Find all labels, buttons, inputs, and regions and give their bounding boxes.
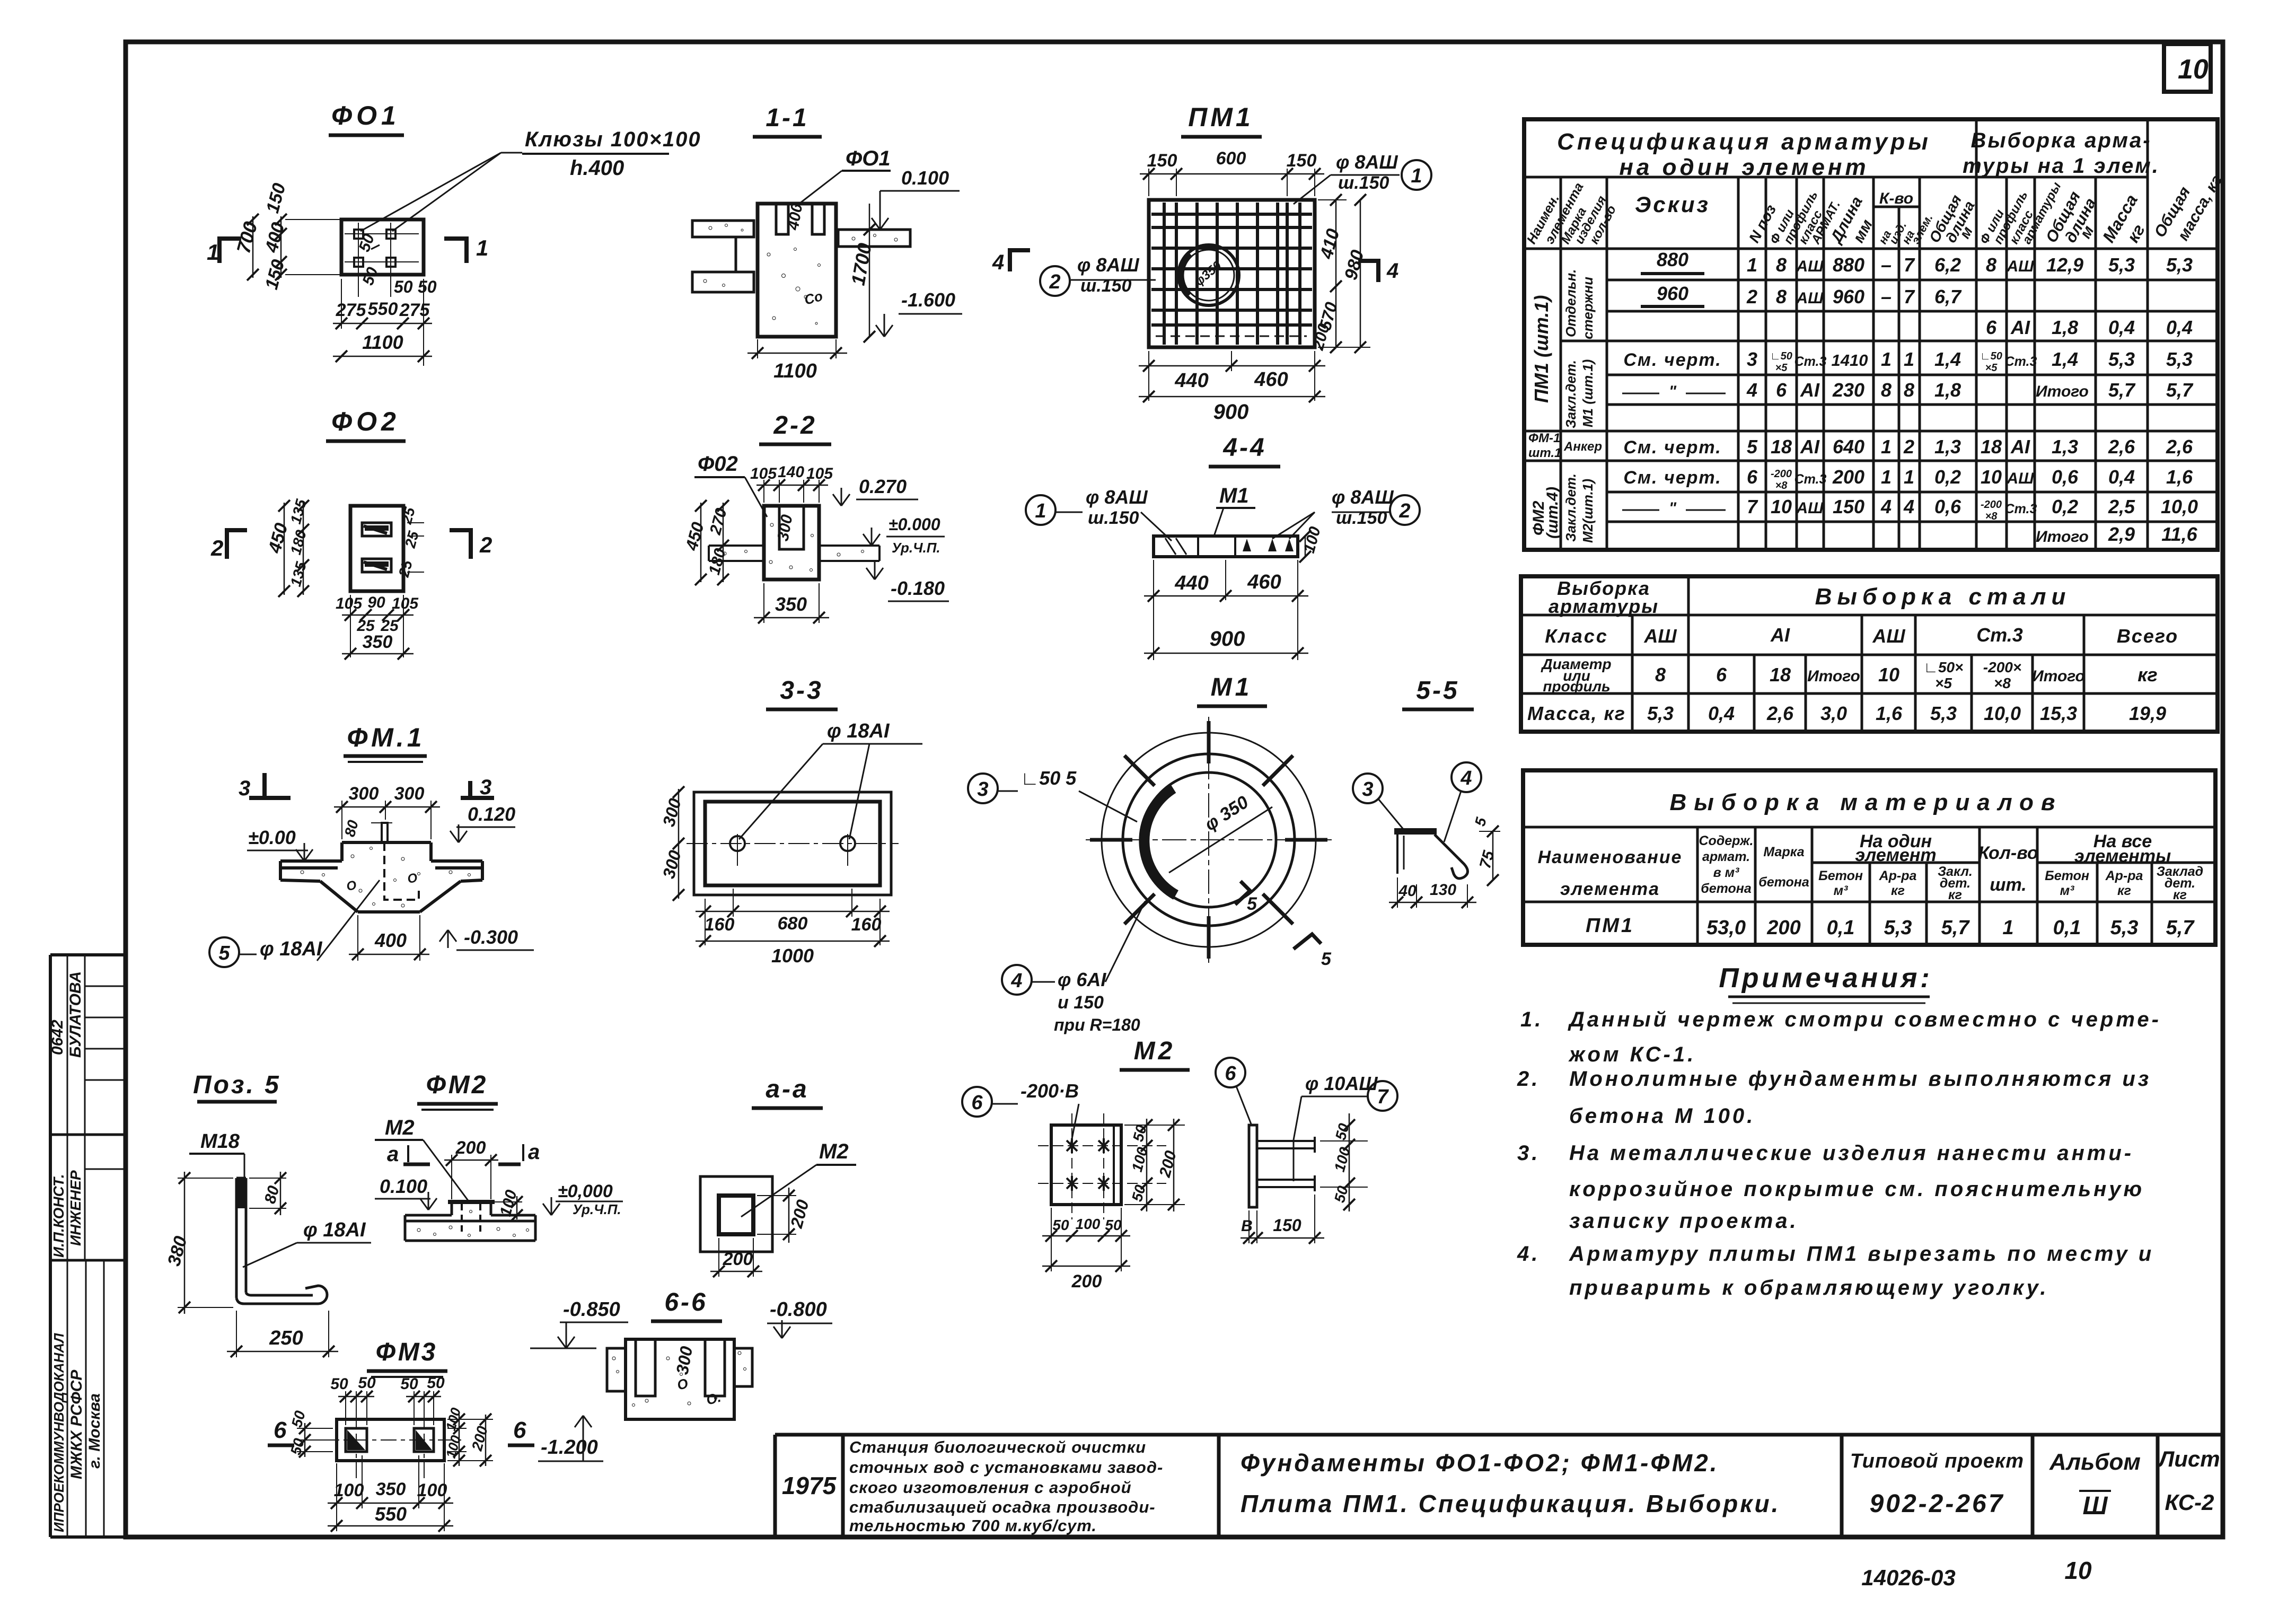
section а-а square [700,1176,772,1252]
svg-text:×8: ×8 [1985,511,1998,522]
svg-text:АI: АI [1800,436,1820,458]
svg-text:2.: 2. [1517,1067,1540,1091]
svg-text:50: 50 [400,1375,418,1393]
svg-text:ФМ.1: ФМ.1 [347,723,425,752]
svg-text:М2(шт.1): М2(шт.1) [1580,479,1596,543]
svg-text:5,3: 5,3 [1884,917,1912,939]
svg-text:Поз. 5: Поз. 5 [193,1071,281,1099]
svg-text:кг: кг [2173,888,2187,902]
svg-text:50: 50 [330,1375,348,1393]
svg-text:Спецификация арматуры: Спецификация арматуры [1557,129,1931,155]
svg-text:См. черт.: См. черт. [1623,468,1721,488]
svg-text:105: 105 [392,595,419,612]
svg-text:-0.850: -0.850 [563,1298,620,1321]
svg-text:900: 900 [1210,627,1245,651]
svg-text:0642: 0642 [49,1020,66,1055]
svg-text:АI: АI [2010,436,2030,458]
table: Выборка материалов (grid) [1523,770,2215,945]
svg-text:0,2: 0,2 [2052,496,2078,517]
svg-text:м³: м³ [1834,883,1848,898]
М2 anchors (4 crosses) [1067,1138,1109,1191]
svg-text:Выборка материалов: Выборка материалов [1670,789,2063,815]
svg-text:275: 275 [399,300,430,320]
svg-text:880: 880 [1657,249,1688,270]
dim 1100 bottom of 1-1 [757,339,758,358]
svg-text:3: 3 [480,776,491,799]
svg-text:350: 350 [376,1479,406,1499]
ФМ3 left dims 50 50 [297,1428,333,1429]
2-2 top dims 105 140 105 [763,480,764,503]
ФМ1 concrete dots [301,847,471,908]
ФО2 bottom dims 105 90 105 / 25 25 / 350 [350,595,351,657]
svg-text:записку проекта.: записку проекта. [1569,1209,1799,1233]
2-2 left dims 450 270 180 [700,503,702,582]
svg-text:19,9: 19,9 [2129,702,2166,724]
svg-text:7: 7 [1904,254,1915,276]
svg-text:10: 10 [1771,496,1792,517]
svg-text:АI: АI [1800,379,1820,401]
svg-text:ш.150: ш.150 [1336,508,1387,528]
svg-text:960: 960 [1833,286,1864,308]
svg-text:М2: М2 [1134,1037,1176,1065]
section 1-1 foundation block [758,204,836,337]
callout 6 side М2 [1216,1058,1245,1087]
svg-text:5: 5 [1747,436,1758,458]
svg-text:1: 1 [476,235,488,260]
svg-text:100: 100 [1076,1216,1101,1232]
section 2-2 drawing [764,506,819,579]
а-а dim 200 right [757,1195,796,1196]
svg-text:150: 150 [1147,151,1177,171]
svg-text:Всего: Всего [2117,625,2178,647]
svg-text:": " [1669,499,1677,517]
svg-text:сточных вод с установками: сточных вод с установками завод- [849,1458,1163,1477]
svg-text:–: – [1881,254,1892,276]
callout 3 on 5-5 [1353,774,1383,803]
svg-text:Ст.3: Ст.3 [1794,354,1827,369]
svg-text:1,8: 1,8 [2052,317,2078,338]
svg-text:АШ: АШ [1796,499,1824,517]
svg-text:φ 8АШ: φ 8АШ [1336,151,1398,173]
svg-text:5,3: 5,3 [1930,702,1957,724]
svg-text:6,2: 6,2 [1934,254,1961,276]
svg-text:φ 18АI: φ 18АI [260,938,323,960]
svg-text:ПМ1: ПМ1 [1188,102,1253,132]
svg-text:50: 50 [418,277,437,296]
svg-text:φ 8АШ: φ 8АШ [1332,486,1394,508]
svg-text:1,3: 1,3 [2052,436,2078,458]
svg-text:-1.200: -1.200 [541,1436,598,1459]
svg-text:1: 1 [1881,466,1892,488]
svg-text:См. черт.: См. черт. [1623,350,1721,370]
svg-text:4: 4 [1460,767,1472,789]
svg-text:6-6: 6-6 [664,1288,707,1316]
svg-text:∟50 5: ∟50 5 [1021,767,1077,789]
svg-text:200: 200 [723,1249,753,1269]
svg-text:1000: 1000 [771,945,814,967]
section mark 2 left [227,530,247,559]
svg-text:–: – [1881,286,1892,308]
svg-text:250: 250 [269,1327,303,1349]
svg-text:-0.800: -0.800 [770,1298,827,1321]
anchor Поз.5 (М18, φ18АI) [236,1178,327,1304]
svg-text:профиль: профиль [1543,678,1610,695]
svg-text:6: 6 [1747,466,1758,488]
svg-text:7: 7 [1904,286,1915,308]
svg-text:φ 18АI: φ 18АI [303,1219,366,1241]
svg-text:4: 4 [1010,970,1022,992]
svg-text:ИНЖЕНЕР: ИНЖЕНЕР [67,1170,84,1246]
svg-text:ш.150: ш.150 [1080,276,1131,296]
svg-text:130: 130 [1430,881,1456,899]
section mark 1 left [219,239,241,263]
svg-text:-0.180: -0.180 [891,577,945,599]
svg-text:2-2: 2-2 [773,411,816,440]
svg-text:ПМ1 (шт.1): ПМ1 (шт.1) [1530,295,1552,403]
svg-text:10: 10 [1981,466,2002,488]
svg-text:10,0: 10,0 [2161,496,2198,517]
svg-text:Итого: Итого [2032,668,2085,685]
М2 dims bottom 50 100 50 200 [1051,1208,1052,1271]
svg-text:350: 350 [363,632,393,652]
svg-text:ИПРОЕКОММУНВОДОКАНАЛ: ИПРОЕКОММУНВОДОКАНАЛ [51,1332,67,1532]
section 4-4 plate [1154,536,1298,557]
section mark 3 right [468,781,472,798]
svg-text:440: 440 [1174,370,1208,392]
svg-text:10: 10 [2064,1557,2092,1584]
М2 side dims bottom B 150 [1248,1210,1250,1243]
svg-text:1: 1 [1411,165,1422,187]
svg-text:1,4: 1,4 [1934,348,1961,370]
svg-text:(шт.4): (шт.4) [1544,487,1561,539]
svg-text:7: 7 [1377,1086,1389,1108]
section mark 3 left [262,773,267,798]
svg-text:1: 1 [1881,348,1892,370]
svg-text:2: 2 [1903,436,1914,458]
svg-text:Ар-ра: Ар-ра [2105,868,2143,883]
svg-text:Выборка стали: Выборка стали [1815,584,2071,610]
svg-text:6: 6 [274,1417,287,1443]
section 6-6 drawing [626,1339,734,1419]
svg-text:3: 3 [1747,348,1757,370]
svg-text:Ур.Ч.П.: Ур.Ч.П. [573,1201,621,1217]
svg-text:±0.000: ±0.000 [889,515,940,534]
svg-text:на один элемент: на один элемент [1619,154,1869,180]
svg-text:2,6: 2,6 [1766,702,1794,724]
svg-text:50: 50 [1052,1217,1069,1233]
plate ПМ1 hole circle [1178,245,1239,305]
svg-text:3: 3 [239,777,250,800]
svg-text:4: 4 [1386,259,1398,283]
ФО1 dim 700 [252,216,254,278]
svg-text:1: 1 [1904,466,1914,488]
svg-text:ш.150: ш.150 [1088,508,1139,528]
svg-text:4-4: 4-4 [1222,434,1266,462]
section 5-5 bracket [1394,828,1437,835]
svg-text:6: 6 [1225,1062,1236,1085]
svg-text:4: 4 [1746,379,1757,401]
svg-text:2: 2 [210,535,223,560]
svg-text:8: 8 [1986,254,1996,276]
svg-text:5,3: 5,3 [2110,917,2139,939]
svg-text:АШ: АШ [1872,625,1905,647]
svg-text:Станция биологической очистк: Станция биологической очистки [849,1438,1146,1456]
svg-text:Монолитные фундаменты выполн: Монолитные фундаменты выполняются из [1569,1067,2151,1091]
svg-text:6: 6 [971,1092,983,1114]
svg-text:г. Москва: г. Москва [86,1393,103,1469]
svg-text:a: a [528,1140,540,1164]
М2 dims right 50 100 50 200 [1124,1125,1185,1126]
svg-text:бетона: бетона [1701,881,1752,896]
svg-text:0,6: 0,6 [1934,496,1961,517]
svg-text:Закл.дет.: Закл.дет. [1563,360,1579,428]
svg-text:Типовой проект: Типовой проект [1850,1450,2024,1472]
svg-text:1: 1 [2002,917,2013,939]
svg-text:50: 50 [1105,1217,1122,1233]
svg-text:5,7: 5,7 [2108,379,2136,401]
svg-text:Данный чертеж смотри совмес: Данный чертеж смотри совместно с черте- [1568,1008,2161,1031]
svg-text:φ 18АI: φ 18АI [827,720,890,742]
concrete dots 1-1 [703,224,898,325]
stamp block C [67,1260,68,1537]
table1 small profile cells [1770,350,2002,522]
svg-text:3-3: 3-3 [780,677,823,705]
svg-text:300: 300 [394,784,425,804]
svg-text:1: 1 [1747,254,1757,276]
svg-text:a: a [387,1143,399,1166]
svg-text:5: 5 [218,942,230,964]
М1 diameter line φ350 [1169,807,1272,873]
svg-text:Марка: Марка [1763,845,1804,859]
svg-text:-0.300: -0.300 [464,926,518,948]
М1 centerlines [1086,839,1332,840]
svg-text:5,3: 5,3 [2108,254,2135,276]
svg-text:АI: АI [1770,624,1790,646]
svg-text:6: 6 [1716,664,1727,686]
ФМ2 dim 200 top [451,1155,452,1199]
svg-text:М18: М18 [200,1130,240,1153]
svg-text:5,7: 5,7 [2166,917,2195,939]
section 3-3 plan [694,792,891,895]
callout 2 (φ8АШ ш.150) left [1040,266,1070,296]
section 1-1 right slab [838,230,910,247]
svg-text:М1: М1 [1211,673,1253,701]
svg-text:кг: кг [1891,883,1905,898]
svg-text:h.400: h.400 [570,156,624,180]
svg-text:0,4: 0,4 [2108,466,2135,488]
svg-text:200: 200 [1832,466,1864,488]
callout 2 on 4-4 [1390,495,1420,525]
plate ПМ1 plan grid [1149,200,1315,347]
svg-text:приварить к обрамляющему уг: приварить к обрамляющему уголку. [1569,1276,2048,1299]
svg-text:5-5: 5-5 [1416,677,1459,705]
svg-text:40: 40 [1398,882,1417,900]
ФМ3 top dims 50 50 / 50 50 [345,1391,346,1425]
svg-text:Фундаменты ФО1-ФО2; ФМ1-ФМ2.: Фундаменты ФО1-ФО2; ФМ1-ФМ2. [1241,1449,1719,1477]
ФО1 bottom dim 275 550 275 [341,279,342,329]
ФМ1 top dims 300 300 [341,801,342,839]
svg-text:6: 6 [513,1417,526,1443]
title block grid [775,1435,2223,1537]
ФМ1 bottom dim 400 [357,915,358,961]
svg-text:МЖКХ РСФСР: МЖКХ РСФСР [68,1369,85,1479]
stamp block B [50,1259,126,1262]
svg-text:Лист: Лист [2157,1446,2220,1471]
svg-text:Ф02: Ф02 [698,452,738,476]
svg-text:φ 8АШ: φ 8АШ [1077,254,1139,276]
svg-text:4.: 4. [1517,1242,1540,1266]
svg-text:150: 150 [1287,151,1317,171]
svg-text:90: 90 [367,594,385,611]
2-2 bottom dim 350 [763,583,764,623]
svg-text:∟50: ∟50 [1980,350,2002,362]
svg-text:АШ: АШ [2006,470,2034,487]
svg-text:160: 160 [705,915,735,935]
svg-text:": " [1669,383,1677,400]
svg-text:Ст.3: Ст.3 [1794,472,1827,487]
svg-text:1.: 1. [1520,1008,1543,1031]
svg-text:∟50: ∟50 [1770,350,1792,362]
section mark 1 right [444,239,467,263]
view ФМ3 plan [337,1419,444,1461]
svg-text:880: 880 [1833,254,1864,276]
svg-text:0.270: 0.270 [859,476,907,497]
svg-text:коррозийное покрытие см. поя: коррозийное покрытие см. пояснительную [1569,1178,2144,1201]
svg-text:8: 8 [1776,254,1787,276]
svg-text:53,0: 53,0 [1706,917,1746,939]
view ФМ1 section [280,842,482,912]
svg-text:105: 105 [336,595,363,612]
svg-text:элементы: элементы [2074,846,2171,866]
detail М1 ring [1102,733,1316,947]
svg-text:К-во: К-во [1879,190,1913,207]
svg-text:1: 1 [207,240,219,265]
svg-text:6: 6 [1986,317,1997,338]
svg-text:шт.: шт. [1990,875,2026,895]
svg-text:×8: ×8 [1994,675,2011,691]
svg-text:5: 5 [1247,894,1257,914]
view ФО2 plan [350,506,403,591]
svg-text:-200: -200 [1981,499,2002,511]
svg-text:φ 6АI: φ 6АI [1058,969,1106,990]
svg-text:×5: ×5 [1775,362,1788,374]
svg-text:18: 18 [1981,436,2002,458]
ФО2 left dims 450 135/180/135 [284,503,285,595]
svg-text:ФО1: ФО1 [846,147,891,170]
4-4 bottom dims 440 460 900 [1153,560,1154,660]
svg-text:Класс: Класс [1545,625,1608,647]
svg-text:6,7: 6,7 [1934,286,1962,308]
svg-text:ш.150: ш.150 [1338,173,1389,193]
ФМ2 dim 100 right [494,1201,522,1202]
svg-text:1100: 1100 [362,331,403,353]
svg-text:0,6: 0,6 [2052,466,2079,488]
svg-text:Примечания:: Примечания: [1719,963,1932,994]
svg-text:0.100: 0.100 [901,167,949,189]
svg-text:2: 2 [1049,271,1060,293]
svg-text:шт.1: шт.1 [1528,446,1561,460]
svg-text:Арматуру плиты ПМ1 вырезать: Арматуру плиты ПМ1 вырезать по месту и [1569,1242,2154,1266]
svg-text:См. черт.: См. черт. [1623,437,1721,458]
svg-text:Ш: Ш [2083,1492,2108,1520]
detail М2 side view [1249,1125,1257,1207]
svg-text:50: 50 [358,1374,376,1392]
svg-text:3.: 3. [1517,1141,1540,1165]
svg-text:10,0: 10,0 [1984,702,2021,724]
svg-text:0,4: 0,4 [2108,317,2135,338]
svg-text:a-a: a-a [766,1075,808,1103]
svg-text:150: 150 [1273,1216,1301,1235]
svg-text:Клюзы 100×100: Клюзы 100×100 [525,128,701,151]
svg-text:в м³: в м³ [1713,865,1740,880]
svg-text:ФО1: ФО1 [331,101,400,130]
stamp block A rows [50,1134,126,1136]
svg-text:жом КС-1.: жом КС-1. [1568,1043,1696,1066]
svg-text:6: 6 [1776,379,1787,401]
svg-text:при R=180: при R=180 [1054,1015,1140,1034]
3-3 bottom dims 160 680 160 1000 [705,899,706,945]
svg-text:5,3: 5,3 [1647,702,1674,724]
svg-text:Ст.3: Ст.3 [1976,624,2023,646]
svg-text:8: 8 [1655,664,1666,686]
svg-text:АШ: АШ [1796,258,1824,275]
svg-text:0,4: 0,4 [2166,317,2193,338]
svg-text:230: 230 [1832,379,1864,401]
svg-text:1,6: 1,6 [2166,466,2193,488]
svg-text:2: 2 [479,532,492,557]
svg-text:стержни: стержни [1580,277,1596,339]
svg-text:150: 150 [1833,496,1864,517]
svg-text:1100: 1100 [773,360,817,382]
svg-text:640: 640 [1833,436,1864,458]
svg-text:М1: М1 [1219,484,1249,507]
svg-text:10: 10 [2178,54,2209,85]
svg-text:БУЛАТОВА: БУЛАТОВА [67,971,84,1058]
svg-text:армат.: армат. [1702,849,1750,864]
svg-text:Ст.3: Ст.3 [2005,354,2037,369]
svg-text:Ур.Ч.П.: Ур.Ч.П. [892,540,940,556]
svg-text:18: 18 [1770,664,1791,686]
svg-text:11,6: 11,6 [2161,523,2197,545]
ПМ1 top dims 150 600 150 [1148,169,1149,196]
svg-text:±0.00: ±0.00 [248,827,296,848]
svg-text:Итого: Итого [2036,528,2089,546]
svg-text:1,3: 1,3 [1934,436,1961,458]
svg-text:ФМ2: ФМ2 [426,1071,488,1099]
svg-text:0,2: 0,2 [1934,466,1961,488]
section mark 4 right [1358,261,1378,282]
svg-text:Альбом: Альбом [2049,1449,2141,1475]
svg-text:8: 8 [1881,379,1892,401]
svg-text:2,5: 2,5 [2108,496,2135,517]
svg-text:12,9: 12,9 [2046,254,2083,276]
svg-text:902-2-267: 902-2-267 [1870,1490,2005,1518]
section mark 2 right [450,530,471,559]
svg-text:Выборка арма-: Выборка арма- [1970,129,2151,152]
svg-text:15,3: 15,3 [2040,702,2077,724]
svg-text:Отдельн.: Отдельн. [1563,269,1579,337]
sheet number box top right [2164,44,2211,92]
svg-text:0,1: 0,1 [2053,917,2081,939]
svg-text:1: 1 [1904,348,1914,370]
svg-text:5: 5 [1321,949,1332,969]
svg-text:550: 550 [375,1503,407,1525]
table: Спецификация арматуры (grid) [1524,119,2218,550]
svg-text:-200×: -200× [1983,659,2021,675]
svg-text:1,4: 1,4 [2052,348,2078,370]
svg-text:1410: 1410 [1832,351,1868,370]
svg-text:Итого: Итого [1807,668,1860,685]
